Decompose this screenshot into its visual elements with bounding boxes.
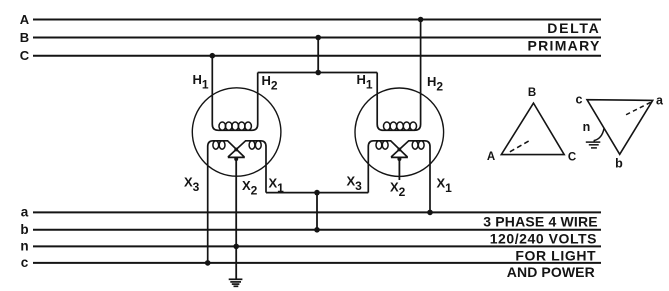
wire secondary c <box>33 262 601 264</box>
T1 primary winding loops <box>219 122 251 130</box>
wire secondary n <box>33 245 601 247</box>
svg-text:A: A <box>487 151 495 163</box>
junction dot on c <box>205 260 211 266</box>
T2 secondary right loops <box>412 141 424 149</box>
wire secondary a <box>33 211 601 213</box>
svg-text:DELTA: DELTA <box>547 20 600 36</box>
wire phase C <box>33 55 601 57</box>
junction dot on a <box>427 210 433 216</box>
junction dot secondary bridge <box>314 190 320 196</box>
junction dot bridge center <box>315 70 321 76</box>
wire T2 X2 stub <box>398 157 400 180</box>
svg-text:120/240 VOLTS: 120/240 VOLTS <box>490 231 597 247</box>
svg-text:C: C <box>568 152 576 164</box>
junction dot on C for T1 H1 <box>210 53 216 59</box>
junction dot on b <box>314 227 320 233</box>
T1 crossing blob <box>234 148 238 152</box>
junction dot on A for T2 H2 <box>418 17 424 23</box>
phasor triangle ABC <box>501 103 564 155</box>
ground symbol at phasor n <box>586 142 601 148</box>
wire phase B <box>33 37 601 39</box>
phasor ABC dashed leg <box>510 140 530 152</box>
wire n tap curve <box>594 129 604 143</box>
transformer T2 case <box>355 88 444 176</box>
phasor triangle abc <box>587 100 653 155</box>
T2 secondary left lead X3 with topline and diagonal <box>368 141 407 193</box>
wire T1 H1 lead with primary baseline <box>212 56 257 131</box>
T1 secondary left lead X3 with topline and diagonal <box>208 141 245 263</box>
T2 primary winding loops <box>384 122 417 130</box>
transformer T1 case <box>192 88 281 176</box>
T1 secondary left loops <box>213 141 225 149</box>
svg-text:b: b <box>615 157 623 171</box>
svg-text:PRIMARY: PRIMARY <box>527 38 600 54</box>
T1 secondary right lead X1 with topline and diagonal <box>228 141 266 193</box>
wire T1 X2 neutral lead to ground <box>235 157 237 278</box>
svg-text:AND POWER: AND POWER <box>507 264 595 280</box>
svg-text:B: B <box>528 87 536 99</box>
T2 crossing blob <box>397 148 401 152</box>
T1 secondary right loops <box>249 141 261 149</box>
ground symbol under T1 <box>229 279 243 286</box>
wire phase A <box>33 19 601 21</box>
svg-text:B: B <box>20 30 29 45</box>
svg-text:n: n <box>583 120 591 134</box>
svg-text:c: c <box>21 255 29 270</box>
svg-text:a: a <box>656 94 664 108</box>
junction dot on B <box>315 35 321 41</box>
phasor abc dashed leg <box>624 102 651 116</box>
wire secondary bridge X1T1 to X3T2 <box>266 192 368 194</box>
svg-text:FOR LIGHT: FOR LIGHT <box>515 248 596 264</box>
svg-text:n: n <box>20 239 28 254</box>
T2 secondary left loops <box>376 141 388 149</box>
svg-text:3 PHASE 4 WIRE: 3 PHASE 4 WIRE <box>483 214 598 230</box>
wire T2 H1 lead with primary baseline <box>377 20 420 131</box>
svg-text:b: b <box>20 222 28 237</box>
T2 center tap base bar <box>391 156 408 158</box>
svg-text:a: a <box>21 205 29 220</box>
T2 secondary right lead X1 with topline and diagonal <box>391 141 430 213</box>
svg-text:C: C <box>20 48 30 63</box>
wire secondary b <box>33 229 601 231</box>
wire bridge to secondary b <box>316 193 318 230</box>
T2 center tap dot <box>397 157 401 161</box>
T1 center tap dot <box>234 157 238 161</box>
junction dot on n <box>233 244 239 250</box>
wire primary bridge H2T1 to H1T2 <box>258 72 378 74</box>
wire bridge to phase B <box>317 38 319 73</box>
svg-text:c: c <box>576 93 583 107</box>
T1 center tap base bar <box>228 156 245 158</box>
svg-text:A: A <box>20 12 30 27</box>
